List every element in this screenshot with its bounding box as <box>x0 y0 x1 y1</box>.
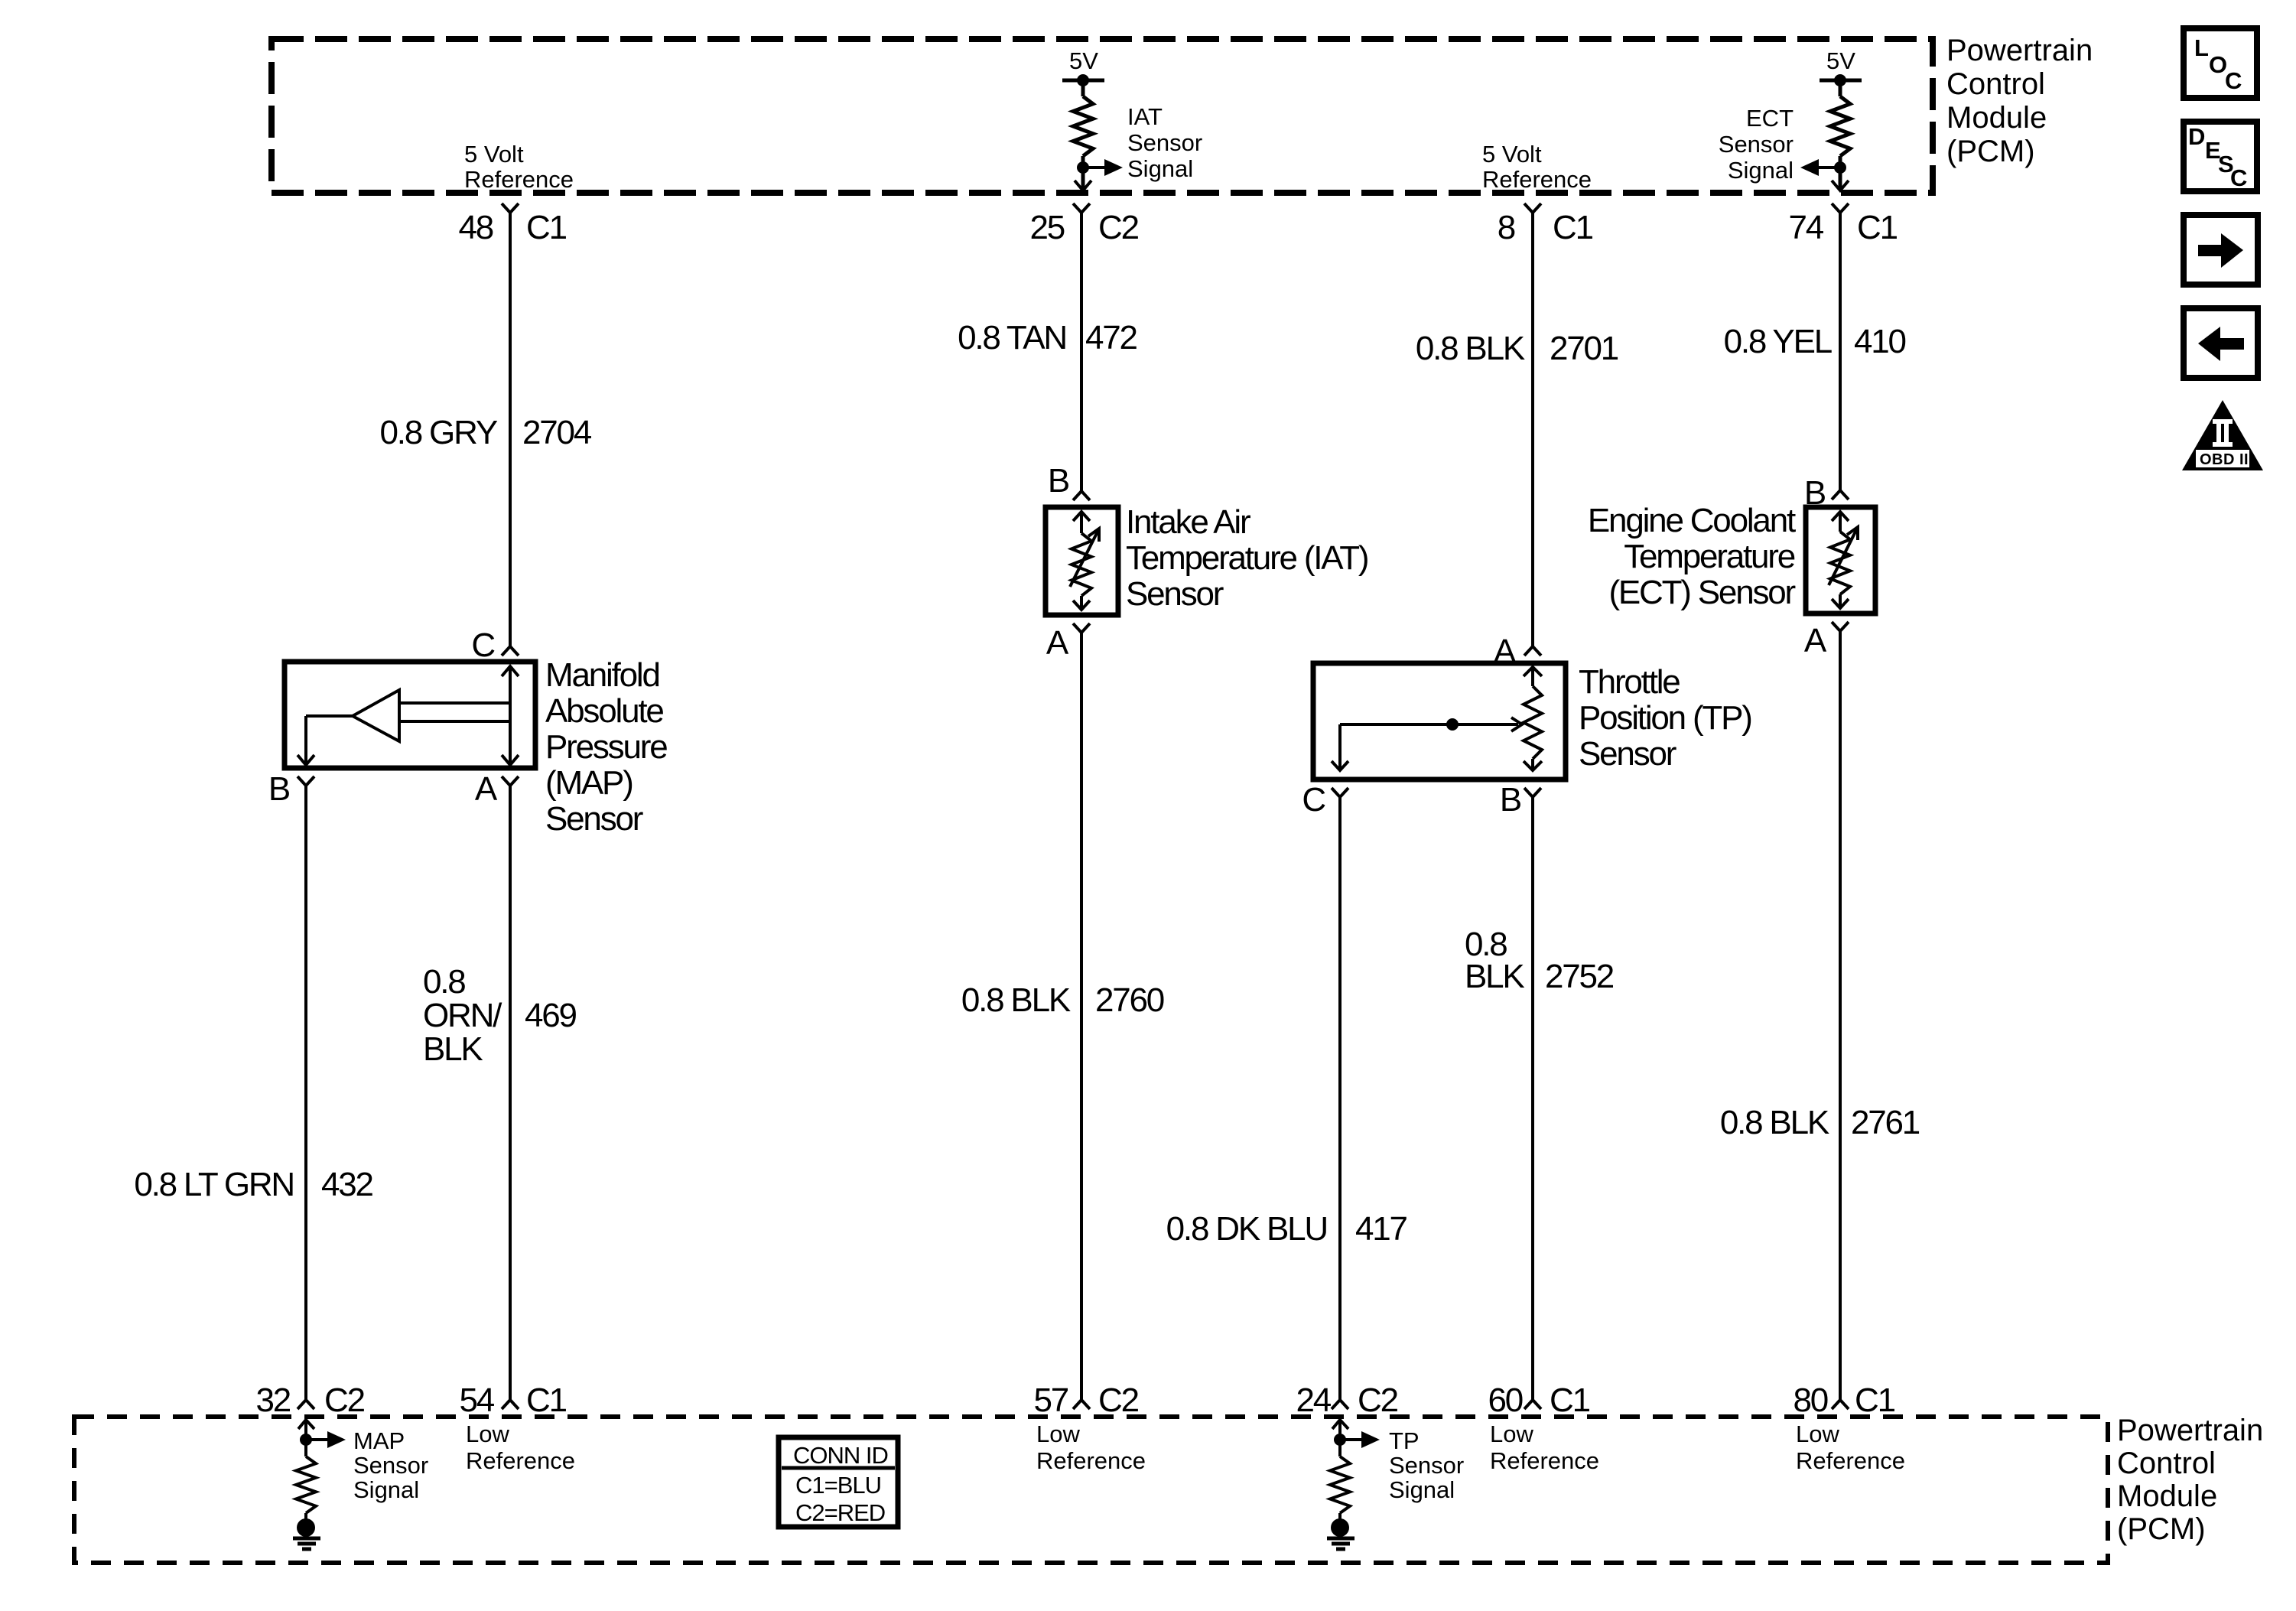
wire MAP A to 54 C1 <box>509 786 512 1400</box>
svg-text:(PCM): (PCM) <box>1946 135 2035 168</box>
svg-text:A: A <box>1494 633 1517 670</box>
svg-text:0.8 BLK: 0.8 BLK <box>1416 330 1525 367</box>
svg-text:D: D <box>2188 123 2205 150</box>
TP pin B connector <box>1524 788 1541 797</box>
svg-text:Powertrain: Powertrain <box>2117 1414 2263 1447</box>
svg-text:25: 25 <box>1029 209 1064 246</box>
svg-text:C: C <box>471 626 495 664</box>
svg-text:C: C <box>2225 67 2242 94</box>
MAP pin A connector <box>502 776 519 786</box>
svg-text:Low: Low <box>1796 1421 1839 1447</box>
svg-text:469: 469 <box>525 997 577 1034</box>
svg-text:Sensor: Sensor <box>1579 735 1676 773</box>
svg-text:5 Volt: 5 Volt <box>464 141 524 168</box>
svg-text:Signal: Signal <box>353 1476 419 1503</box>
svg-text:C2: C2 <box>1098 209 1139 246</box>
svg-text:C1: C1 <box>1857 209 1898 246</box>
svg-text:Pressure: Pressure <box>545 728 667 766</box>
5V supply (ECT pullup) <box>1820 80 1862 188</box>
PCM bottom dashed box <box>74 1417 2108 1563</box>
resistor IAT pullup junction dot <box>1077 161 1089 174</box>
resistor ECT pullup junction dot <box>1834 161 1846 174</box>
svg-text:Low: Low <box>466 1421 509 1447</box>
bottom connector 54 C1 <box>502 1400 519 1409</box>
svg-text:Intake Air: Intake Air <box>1126 503 1250 541</box>
svg-text:MAP: MAP <box>353 1427 405 1454</box>
svg-text:80: 80 <box>1793 1382 1827 1419</box>
TP potentiometer <box>1332 667 1542 770</box>
ECT wire exit down-arrow <box>1832 181 1849 190</box>
wire TP C to 24 C2 <box>1338 797 1342 1400</box>
svg-text:Temperature (IAT): Temperature (IAT) <box>1126 539 1368 577</box>
svg-text:B: B <box>1500 781 1521 819</box>
svg-text:8: 8 <box>1498 209 1515 246</box>
wire 48 C1 to MAP C <box>509 213 512 646</box>
MAP internal wiring <box>298 666 519 765</box>
pin 25 C2 connector <box>1073 203 1090 213</box>
svg-text:Module: Module <box>1946 101 2047 135</box>
svg-text:OBD II: OBD II <box>2200 451 2249 468</box>
svg-text:Reference: Reference <box>464 166 574 193</box>
svg-text:5 Volt: 5 Volt <box>1482 141 1542 168</box>
svg-text:Signal: Signal <box>1389 1476 1455 1503</box>
svg-text:BLK: BLK <box>423 1030 483 1068</box>
svg-text:Reference: Reference <box>466 1447 575 1474</box>
svg-text:Control: Control <box>2117 1447 2216 1480</box>
svg-text:2701: 2701 <box>1550 330 1618 367</box>
svg-text:Sensor: Sensor <box>1127 129 1202 156</box>
svg-text:48: 48 <box>458 209 493 246</box>
svg-text:Sensor: Sensor <box>1389 1452 1464 1479</box>
svg-text:432: 432 <box>321 1166 373 1203</box>
svg-text:(MAP): (MAP) <box>545 764 633 802</box>
bottom connector 60 C1 <box>1524 1400 1541 1409</box>
5V supply (IAT pullup) <box>1062 80 1104 188</box>
svg-text:Temperature: Temperature <box>1624 538 1795 575</box>
svg-text:ECT: ECT <box>1746 105 1794 132</box>
svg-text:57: 57 <box>1033 1382 1068 1419</box>
svg-text:Throttle: Throttle <box>1579 663 1680 701</box>
MAP pin B connector <box>298 776 314 786</box>
pin 74 C1 connector <box>1832 203 1849 213</box>
svg-text:0.8 BLK: 0.8 BLK <box>1720 1104 1829 1141</box>
ECT sensor box <box>1806 507 1875 613</box>
svg-text:Position (TP): Position (TP) <box>1579 699 1751 737</box>
svg-text:Sensor: Sensor <box>1719 131 1794 158</box>
svg-text:Manifold: Manifold <box>545 656 659 694</box>
TP sensor box <box>1313 663 1566 779</box>
svg-text:Sensor: Sensor <box>545 800 643 838</box>
ECT pin B connector <box>1832 490 1849 500</box>
svg-text:A: A <box>1804 622 1827 659</box>
svg-text:IAT: IAT <box>1127 103 1163 130</box>
svg-text:Reference: Reference <box>1796 1447 1905 1474</box>
svg-text:60: 60 <box>1488 1382 1522 1419</box>
PCM top dashed box <box>272 39 1933 193</box>
ECT sensor signal arrow <box>1819 166 1840 169</box>
svg-text:Engine Coolant: Engine Coolant <box>1588 502 1796 539</box>
wire 8 C1 to TP A <box>1531 213 1534 646</box>
svg-text:5V: 5V <box>1826 47 1855 74</box>
svg-text:2752: 2752 <box>1545 958 1614 995</box>
svg-text:5V: 5V <box>1069 47 1098 74</box>
svg-text:Signal: Signal <box>1728 157 1794 184</box>
svg-text:2704: 2704 <box>522 414 592 451</box>
bottom connector 32 C2 <box>298 1400 314 1409</box>
svg-text:Sensor: Sensor <box>353 1452 428 1479</box>
ECT pin A connector <box>1832 622 1849 631</box>
svg-text:C: C <box>2230 164 2247 191</box>
icon arrow left <box>2184 308 2258 378</box>
svg-text:Absolute: Absolute <box>545 692 663 730</box>
bottom connector 80 C1 <box>1832 1400 1849 1409</box>
MAP sensor signal input circuit <box>296 1420 327 1519</box>
svg-text:C1: C1 <box>1553 209 1593 246</box>
MAP pin C connector <box>502 646 519 656</box>
svg-text:0.8 GRY: 0.8 GRY <box>379 414 497 451</box>
icon DESC <box>2184 122 2257 191</box>
svg-text:C2: C2 <box>1358 1382 1398 1419</box>
svg-text:472: 472 <box>1085 319 1137 356</box>
IAT wire exit down-arrow <box>1075 181 1091 190</box>
svg-text:0.8 LT GRN: 0.8 LT GRN <box>134 1166 294 1203</box>
svg-text:A: A <box>475 770 498 808</box>
MAP amplifier symbol <box>353 690 399 741</box>
svg-text:Low: Low <box>1490 1421 1533 1447</box>
svg-text:24: 24 <box>1296 1382 1331 1419</box>
TP signal ground <box>1331 1518 1349 1537</box>
TP pin C connector <box>1332 788 1348 797</box>
svg-text:Low: Low <box>1036 1421 1080 1447</box>
TP wiper junction dot <box>1446 718 1459 731</box>
svg-text:CONN ID: CONN ID <box>793 1442 888 1469</box>
svg-text:2760: 2760 <box>1095 981 1164 1019</box>
TP sensor signal input circuit <box>1330 1420 1361 1519</box>
svg-text:TP: TP <box>1389 1427 1420 1454</box>
wire TP B to 60 C1 <box>1531 797 1534 1400</box>
bottom connector 57 C2 <box>1073 1400 1090 1409</box>
CONN ID legend box <box>779 1437 898 1527</box>
svg-text:54: 54 <box>459 1382 494 1419</box>
ECT thermistor <box>1829 512 1858 608</box>
svg-text:0.8 YEL: 0.8 YEL <box>1724 323 1833 360</box>
svg-text:C1: C1 <box>526 209 567 246</box>
svg-text:A: A <box>1046 624 1069 662</box>
icon OBD II triangle <box>2182 400 2263 470</box>
svg-text:B: B <box>268 770 290 808</box>
svg-text:Powertrain: Powertrain <box>1946 34 2093 67</box>
pin 48 C1 connector <box>502 203 519 213</box>
IAT pin A connector <box>1073 623 1090 633</box>
svg-text:74: 74 <box>1788 209 1823 246</box>
svg-text:Control: Control <box>1946 67 2045 101</box>
icon LOC <box>2184 28 2257 98</box>
wire ECT A to 80 C1 <box>1839 631 1842 1400</box>
svg-text:Reference: Reference <box>1482 166 1592 193</box>
svg-text:B: B <box>1804 474 1826 512</box>
svg-text:417: 417 <box>1355 1210 1407 1248</box>
wire IAT A to 57 C2 <box>1080 633 1083 1400</box>
IAT sensor box <box>1046 507 1118 615</box>
svg-text:BLK: BLK <box>1465 958 1524 995</box>
svg-text:ORN/: ORN/ <box>423 997 502 1034</box>
MAP sensor box <box>285 662 535 768</box>
svg-text:B: B <box>1048 462 1069 500</box>
svg-text:0.8 DK BLU: 0.8 DK BLU <box>1166 1210 1327 1248</box>
bottom connector 24 C2 <box>1332 1400 1348 1409</box>
IAT sensor signal arrow <box>1083 166 1104 169</box>
svg-text:0.8 BLK: 0.8 BLK <box>961 981 1071 1019</box>
wire MAP B to 32 C2 <box>304 786 307 1400</box>
svg-text:C1: C1 <box>1550 1382 1590 1419</box>
TP pin A connector <box>1524 646 1541 656</box>
svg-text:C2=RED: C2=RED <box>795 1499 885 1526</box>
svg-text:Reference: Reference <box>1036 1447 1146 1474</box>
pin 8 C1 connector <box>1524 203 1541 213</box>
svg-text:C1: C1 <box>526 1382 567 1419</box>
svg-text:C2: C2 <box>324 1382 365 1419</box>
MAP signal ground <box>297 1518 315 1537</box>
svg-text:L: L <box>2194 34 2209 61</box>
svg-text:Signal: Signal <box>1127 155 1193 182</box>
svg-text:Sensor: Sensor <box>1126 575 1224 613</box>
IAT pin B connector <box>1073 491 1090 500</box>
svg-text:2761: 2761 <box>1851 1104 1920 1141</box>
svg-text:32: 32 <box>255 1382 290 1419</box>
svg-text:410: 410 <box>1854 323 1906 360</box>
svg-text:0.8 TAN: 0.8 TAN <box>958 319 1066 356</box>
svg-text:C2: C2 <box>1098 1382 1139 1419</box>
svg-text:Module: Module <box>2117 1479 2217 1513</box>
svg-text:C: C <box>1302 781 1325 819</box>
IAT thermistor <box>1070 512 1099 610</box>
wire 74 C1 to ECT B <box>1839 213 1842 490</box>
svg-text:0.8: 0.8 <box>423 963 465 1001</box>
wire 25 C2 to IAT B <box>1080 213 1083 491</box>
icon arrow right <box>2184 215 2258 285</box>
svg-text:C1=BLU: C1=BLU <box>795 1472 881 1499</box>
svg-text:Reference: Reference <box>1490 1447 1599 1474</box>
svg-text:C1: C1 <box>1855 1382 1895 1419</box>
svg-text:(PCM): (PCM) <box>2117 1512 2206 1546</box>
svg-text:(ECT) Sensor: (ECT) Sensor <box>1608 574 1795 611</box>
